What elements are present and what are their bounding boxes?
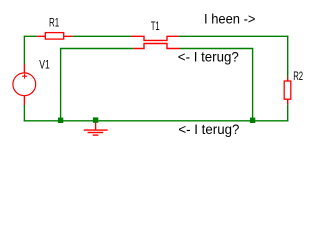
- wire mid rail left segment: [60, 48, 134, 50]
- wire top rail left segment: [24, 35, 37, 37]
- voltage source V1: [13, 64, 36, 105]
- node junction right return: [250, 118, 255, 123]
- wire top rail T1 to right corner: [179, 35, 289, 37]
- node junction left return: [58, 118, 63, 123]
- svg-text:<- I terug?: <- I terug?: [178, 50, 239, 65]
- svg-text:R2: R2: [293, 70, 303, 83]
- wire top-left vertical (V1 top to top rail): [23, 36, 25, 64]
- svg-text:V1: V1: [39, 58, 50, 71]
- transmission line T1 bottom conductor: [134, 44, 180, 49]
- svg-text:T1: T1: [151, 20, 160, 33]
- wire right vertical lower: [287, 104, 289, 121]
- resistor R2: [284, 77, 291, 104]
- svg-text:<- I terug?: <- I terug?: [178, 122, 239, 137]
- wire left vertical lower (V1 bottom to bottom rail): [23, 105, 25, 122]
- wire mid rail right segment: [180, 48, 253, 50]
- wire vertical return left: [60, 49, 62, 121]
- resistor R1: [37, 33, 73, 40]
- wire top rail R1 to T1: [73, 35, 131, 37]
- transmission line T1 top conductor: [131, 36, 179, 40]
- svg-text:I heen ->: I heen ->: [204, 12, 256, 27]
- wire bottom rail: [24, 120, 289, 122]
- node junction ground: [93, 117, 98, 122]
- ground: [84, 123, 108, 136]
- svg-text:R1: R1: [49, 17, 59, 30]
- wire right vertical upper: [287, 36, 289, 77]
- wire vertical return right: [252, 49, 254, 121]
